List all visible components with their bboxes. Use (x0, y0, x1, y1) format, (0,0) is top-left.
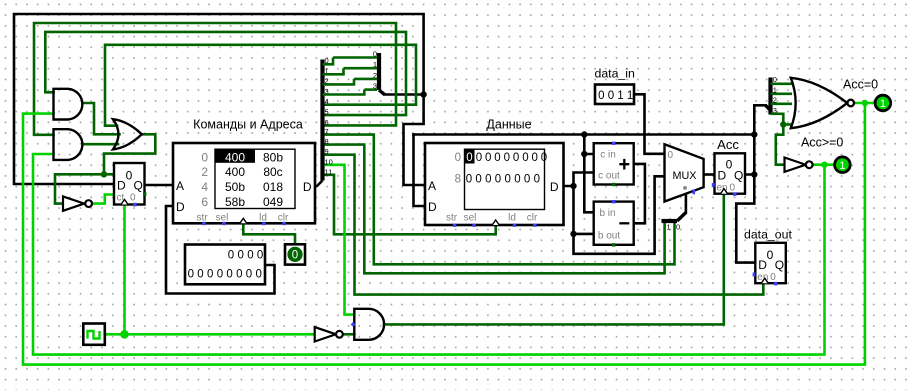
svg-text:str: str (446, 213, 458, 224)
node: bus to adder tap (581, 131, 587, 137)
svg-text:data_in: data_in (595, 67, 636, 81)
svg-text:0: 0 (236, 269, 242, 281)
wire: Acc Q main bus (414, 133, 755, 136)
svg-text:0: 0 (475, 174, 481, 186)
svg-text:D: D (176, 200, 185, 214)
register data_out (744, 228, 792, 286)
svg-text:0: 0 (531, 152, 537, 164)
splitter SP4 (Acc bits for NOR, 4) (766, 75, 794, 125)
display register R2 (0000/00000000) (185, 245, 265, 285)
svg-text:6: 6 (201, 195, 208, 209)
svg-text:0: 0 (485, 174, 491, 186)
svg-text:4: 4 (201, 180, 208, 194)
svg-text:6: 6 (325, 118, 329, 127)
node: clock junction (120, 330, 129, 339)
svg-text:0: 0 (726, 157, 733, 171)
wire: splitter bit8 to select splitter bit 0 (323, 145, 665, 274)
wire: OR output loop down to counter enable line (104, 134, 155, 174)
svg-text:c out: c out (598, 170, 620, 181)
register Acc (712, 137, 745, 196)
svg-text:0: 0 (197, 269, 203, 281)
svg-text:Данные: Данные (486, 118, 531, 132)
svg-text:1: 1 (617, 90, 623, 102)
svg-text:1: 1 (839, 160, 845, 172)
svg-text:0: 0 (217, 269, 223, 281)
svg-text:Команды и Адреса: Команды и Адреса (193, 118, 303, 132)
svg-text:Q: Q (775, 258, 784, 272)
svg-text:clr: clr (527, 213, 538, 224)
NOT gate G6 (sign invert) (785, 158, 813, 172)
svg-text:c in: c in (600, 149, 616, 160)
adder U3 (594, 142, 634, 187)
svg-text:0: 0 (676, 223, 680, 232)
wire: ROM clock to input pin (243, 224, 295, 244)
wire: counter Q to ROM A (145, 184, 174, 187)
wire: splitter bit4 up over top to OR input 1 (105, 45, 416, 126)
svg-text:400: 400 (225, 165, 245, 179)
svg-text:0: 0 (455, 152, 461, 164)
svg-text:sel: sel (464, 213, 477, 224)
svg-text:D: D (718, 168, 727, 182)
svg-text:0: 0 (207, 269, 213, 281)
svg-text:10: 10 (325, 157, 333, 166)
splitter SP2 (counter load combine, 4) (333, 50, 385, 95)
wire: MUX select stub to select splitter (685, 194, 688, 213)
svg-text:0: 0 (476, 152, 482, 164)
svg-text:018: 018 (263, 180, 283, 194)
svg-text:D: D (303, 180, 312, 194)
svg-text:049: 049 (263, 195, 283, 209)
NOT gate G7 (clock inverter) (315, 327, 343, 341)
output pin P3: Acc=0 (843, 78, 891, 111)
svg-text:0: 0 (598, 90, 604, 102)
node: RAM D out tap (570, 183, 576, 189)
wire: Acc=0 pin net to AND1 bottom input (23, 103, 875, 365)
svg-text:b out: b out (598, 230, 620, 241)
svg-text:0: 0 (228, 249, 234, 261)
wire: top feedback bus from right splitter to counter D (14, 14, 424, 184)
counter CT1 (114, 163, 146, 206)
svg-text:0: 0 (292, 250, 298, 262)
input pin P2: data_in (595, 67, 636, 105)
wire: Acc Q to bus junction and up to NOR splitter (745, 105, 766, 174)
wire: AND1 out to OR input 2 (83, 103, 119, 134)
node: adder A / subtractor A tap (581, 151, 587, 157)
svg-text:0: 0 (247, 249, 253, 261)
node: Acc=0 junction (862, 100, 868, 106)
wire: splitter bit9 to data_out clock (323, 155, 764, 295)
svg-text:0: 0 (534, 174, 540, 186)
svg-text:0: 0 (226, 269, 232, 281)
svg-text:50b: 50b (225, 180, 245, 194)
svg-text:0: 0 (237, 249, 243, 261)
wire: Acc Q down to data_out D (736, 175, 755, 263)
svg-text:8: 8 (455, 174, 461, 186)
svg-text:0: 0 (541, 152, 547, 164)
svg-text:0: 0 (514, 174, 520, 186)
svg-text:9: 9 (325, 147, 329, 156)
svg-text:8: 8 (325, 137, 329, 146)
svg-text:data_out: data_out (744, 228, 792, 242)
input pin P1 (ROM clock constant 0) (285, 244, 305, 264)
svg-text:Acc=0: Acc=0 (843, 78, 878, 92)
clock CLK1 (83, 324, 105, 345)
svg-text:D: D (117, 179, 126, 193)
svg-text:0: 0 (466, 152, 472, 164)
ROM/RAM U1: Команды и Адреса (173, 118, 315, 226)
svg-text:0: 0 (770, 272, 776, 283)
svg-text:Q: Q (734, 168, 743, 182)
node: subtractor B tap (570, 231, 576, 237)
AND gate G2 (54, 129, 83, 160)
wire: splitter bit7 to select splitter bit 1 (323, 135, 675, 265)
svg-text:0: 0 (257, 249, 263, 261)
svg-text:0: 0 (504, 152, 510, 164)
node: right splitter junction (420, 91, 426, 97)
wire: Acc>=0 pin net to AND2 bottom input (33, 154, 835, 355)
svg-text:0: 0 (255, 269, 261, 281)
svg-text:1: 1 (627, 90, 633, 102)
wire: NOT1 out to counter ct pin (94, 195, 114, 204)
wire: display register to ROM left D input (166, 206, 275, 294)
svg-text:0: 0 (466, 174, 472, 186)
wire: junction down to RAM A (404, 95, 426, 186)
NOR gate G5 (Acc=0) (791, 78, 854, 128)
splitter SP1 (instruction bits, 12) (315, 56, 364, 186)
wire: NOT2 out to AND3 input (343, 333, 354, 336)
node: Acc Q bus junction (751, 131, 757, 137)
subtractor U4 (594, 200, 634, 247)
svg-text:58b: 58b (225, 195, 245, 209)
wire: data_in pin to MUX in0 (634, 94, 665, 154)
AND gate G8 (store strobe) (354, 309, 384, 340)
wire: counter upper-left pin line and NOT1 input (55, 174, 114, 203)
wire: adder output tied to subtractor output (634, 164, 645, 223)
wire: splitter bit10 to AND3 top input (323, 165, 355, 315)
svg-text:Q: Q (134, 179, 143, 193)
RAM U2: Данные (425, 118, 564, 227)
svg-text:0: 0 (485, 152, 491, 164)
svg-text:0: 0 (767, 248, 774, 262)
node: NOR bit3 junction (780, 121, 786, 127)
svg-text:0: 0 (188, 269, 194, 281)
node: Acc>=0 junction (821, 162, 827, 168)
svg-text:A: A (428, 179, 436, 193)
output pin P4: Acc>=0 (801, 136, 850, 173)
svg-text:0: 0 (522, 152, 528, 164)
svg-text:Acc>=0: Acc>=0 (801, 136, 843, 150)
node: Acc Q output junction (751, 171, 757, 177)
svg-text:D: D (758, 258, 767, 272)
svg-text:1: 1 (667, 223, 671, 232)
svg-text:D: D (428, 200, 437, 214)
svg-text:0: 0 (668, 150, 674, 161)
svg-text:0: 0 (201, 150, 208, 164)
wire: AND3 out to Acc clock (384, 194, 724, 324)
svg-text:0: 0 (524, 174, 530, 186)
svg-text:80c: 80c (263, 165, 282, 179)
wire: MUX out to Acc D (704, 173, 715, 176)
svg-text:0: 0 (608, 90, 614, 102)
OR gate G3 (113, 119, 142, 149)
svg-text:0: 0 (504, 174, 510, 186)
wire: AND2 out to OR input 3 (84, 143, 118, 146)
svg-text:sel: sel (216, 213, 229, 224)
svg-text:ld: ld (508, 213, 516, 224)
AND gate G1 (54, 89, 83, 120)
wire: clock net to counter clock and NOT2 (105, 205, 315, 334)
svg-text:7: 7 (325, 127, 329, 136)
svg-text:0: 0 (126, 169, 133, 183)
MUX U5 (665, 144, 704, 201)
wire: NOR bit3 tap to NOT3 input (776, 114, 785, 165)
wire: splitter bit11 to RAM clock (323, 175, 496, 235)
svg-text:0: 0 (130, 193, 136, 204)
svg-text:0: 0 (495, 174, 501, 186)
svg-text:4: 4 (325, 97, 329, 106)
wire: splitter bit6 up over top to AND2 top input (34, 23, 396, 135)
wire: Acc bus down to RAM left D input (414, 135, 426, 207)
svg-text:0: 0 (730, 182, 736, 193)
svg-text:Acc: Acc (717, 137, 739, 152)
svg-text:11: 11 (325, 167, 333, 176)
floating pin on AND gate G8 (351, 322, 356, 327)
svg-text:A: A (176, 179, 184, 193)
svg-text:0: 0 (246, 269, 252, 281)
wire: RAM D out to adder B / subtractor B / MUX in1 (564, 173, 665, 254)
svg-text:1: 1 (880, 98, 886, 110)
svg-text:2: 2 (201, 165, 208, 179)
wire: right splitter main to junction (385, 93, 424, 96)
node: OR output to counter line junction (101, 171, 107, 177)
NOT gate G4 (counter enable inverter) (63, 196, 92, 210)
svg-text:b in: b in (599, 208, 615, 219)
wire: splitter bit5 up over top to AND1 top input (45, 32, 406, 115)
svg-text:0: 0 (513, 152, 519, 164)
svg-text:MUX: MUX (673, 170, 697, 182)
svg-text:0: 0 (494, 152, 500, 164)
splitter SP3 (MUX select combine, 2) (662, 213, 686, 232)
svg-text:400: 400 (225, 150, 245, 164)
svg-text:5: 5 (325, 108, 329, 117)
svg-text:80b: 80b (263, 150, 283, 164)
wire: bus tap to adder input A and subtractor input A (584, 135, 593, 213)
svg-text:D: D (550, 180, 559, 194)
